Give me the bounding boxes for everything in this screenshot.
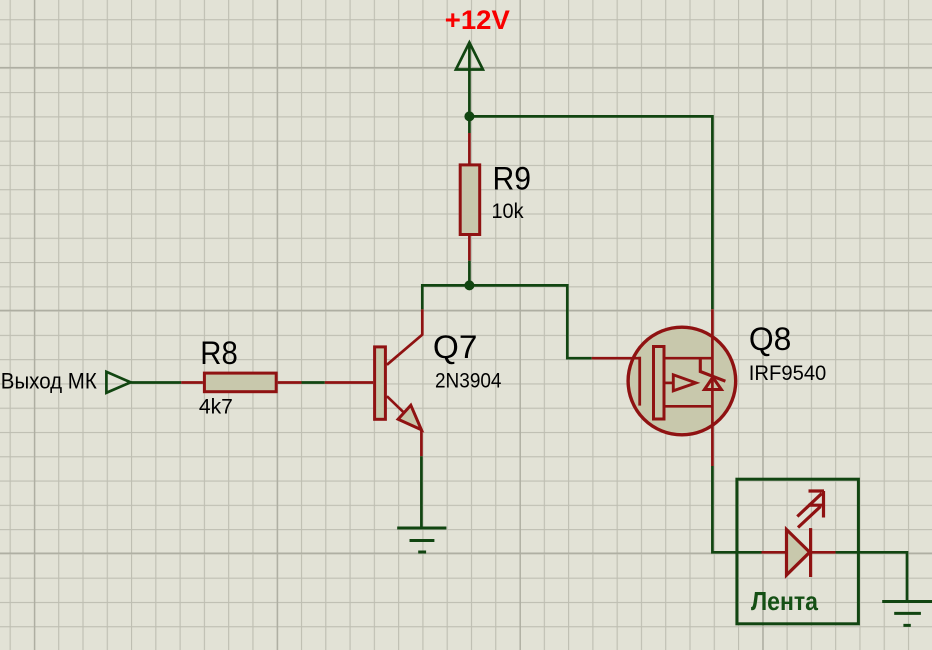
svg-text:2N3904: 2N3904 bbox=[435, 369, 502, 393]
resistor R9 body bbox=[460, 165, 480, 235]
resistor R8 pin left bbox=[181, 381, 203, 384]
LED strip box bbox=[737, 479, 859, 624]
mosfet Q8 top lead bbox=[666, 357, 713, 360]
LED cathode bar bbox=[809, 528, 812, 577]
LED arrow 2 bbox=[798, 505, 822, 527]
wire Q7 emitter to ground bbox=[420, 456, 423, 528]
ground (Q7 emitter) bbox=[397, 528, 446, 552]
mosfet Q8 body circle bbox=[628, 327, 736, 435]
LED anode pin bbox=[762, 551, 787, 554]
mosfet Q8 bottom lead bbox=[666, 405, 713, 408]
transistor Q7 emitter arrow bbox=[398, 405, 421, 430]
input pin terminal bbox=[106, 372, 130, 393]
svg-text:+12V: +12V bbox=[445, 5, 510, 35]
wire terminal to R8 bbox=[131, 381, 182, 384]
mosfet Q8 body diode bbox=[705, 377, 722, 389]
wire node B to Q8 gate bbox=[469, 285, 591, 358]
junction node B bbox=[464, 280, 474, 290]
transistor Q7 emitter pin bbox=[387, 396, 422, 456]
svg-text:IRF9540: IRF9540 bbox=[749, 361, 827, 385]
wire LED to ground bbox=[836, 552, 908, 601]
svg-text:R8: R8 bbox=[200, 335, 238, 371]
resistor R8 pin right bbox=[278, 381, 302, 384]
resistor R9 pin top bbox=[468, 133, 471, 164]
svg-text:4k7: 4k7 bbox=[199, 394, 233, 418]
transistor Q7 base pin bbox=[325, 381, 373, 384]
LED arrow 1 bbox=[797, 491, 824, 518]
svg-text:Лента: Лента bbox=[751, 586, 818, 616]
svg-text:10k: 10k bbox=[492, 200, 524, 223]
LED cathode pin bbox=[811, 551, 836, 554]
mosfet Q8 substrate link bbox=[700, 358, 725, 381]
resistor R8 body bbox=[204, 373, 276, 392]
mosfet Q8 channel plate bbox=[654, 347, 665, 420]
wire node B to Q7 collector bbox=[422, 285, 469, 309]
power symbol +12V arrow bbox=[456, 43, 483, 117]
mosfet Q8 gate bar bbox=[638, 357, 641, 406]
wire R8 to Q7 base bbox=[302, 381, 325, 384]
svg-text:Выход МК: Выход МК bbox=[1, 368, 97, 393]
wire Q8 drain to LED bbox=[712, 466, 761, 552]
svg-text:Q8: Q8 bbox=[749, 321, 792, 357]
svg-text:R9: R9 bbox=[493, 161, 532, 197]
transistor Q7 base bar bbox=[375, 347, 386, 419]
resistor R9 pin bottom bbox=[468, 236, 471, 261]
svg-text:Q7: Q7 bbox=[433, 329, 478, 365]
ground (right) bbox=[882, 602, 932, 626]
LED triangle bbox=[787, 530, 810, 576]
mosfet Q8 gate pin bbox=[592, 357, 641, 360]
mosfet Q8 arrow bbox=[673, 375, 696, 391]
junction node A bbox=[464, 111, 474, 121]
mosfet Q8 middle lead bbox=[666, 382, 674, 385]
wire R9 to node B bbox=[468, 261, 471, 286]
wire node A to Q8 rail top bbox=[469, 116, 712, 309]
mosfet Q8 drain line bbox=[711, 309, 714, 466]
transistor Q7 collector pin bbox=[387, 309, 422, 364]
wire node A down to R9 bbox=[468, 116, 471, 133]
